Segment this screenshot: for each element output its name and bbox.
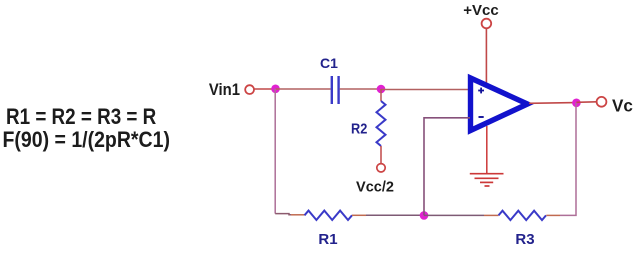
wire: Vin1 terminal to node A bbox=[254, 88, 276, 90]
wire: R3 left lead bbox=[484, 214, 499, 216]
wire: node A down the left side bbox=[274, 89, 276, 214]
wire: op-amp ground pin to ground symbol bbox=[486, 126, 488, 174]
wire: center node up to inverting input bbox=[424, 118, 470, 216]
wire: R1 left lead bbox=[291, 214, 305, 216]
center node junction (bottom feedback node) bbox=[420, 211, 429, 220]
wire: op-amp output to output node bbox=[529, 102, 576, 105]
wire: R3 to bottom right corner bbox=[560, 103, 576, 216]
wire: node A to C1 left plate bbox=[276, 88, 331, 90]
output node junction bbox=[572, 99, 581, 108]
node A junction (input node) bbox=[271, 85, 280, 94]
wire: output node to Vo terminal bbox=[576, 101, 596, 104]
svg-text:C1: C1 bbox=[320, 55, 338, 71]
wire: center node to R3 bbox=[424, 214, 484, 216]
wire: C1 right plate to node B bbox=[340, 88, 381, 90]
ground symbol bbox=[470, 174, 504, 186]
capacitor C1 bbox=[332, 76, 339, 104]
svg-text:+Vcc: +Vcc bbox=[463, 2, 498, 19]
resistor R1 bbox=[305, 211, 352, 220]
svg-text:F(90) = 1/(2pR*C1): F(90) = 1/(2pR*C1) bbox=[3, 128, 170, 152]
wire: R3 right lead bbox=[546, 214, 560, 216]
svg-text:Vin1: Vin1 bbox=[209, 81, 240, 99]
wire: R1 right lead bbox=[352, 214, 366, 216]
wire: R2 bottom lead to Vcc/2 terminal bbox=[380, 146, 382, 164]
op-amp + input marker bbox=[478, 88, 484, 94]
svg-text:R1 = R2 = R3 = R: R1 = R2 = R3 = R bbox=[6, 105, 156, 130]
wire: bottom left corner to R1 bbox=[275, 214, 291, 215]
terminal +Vcc (open circle) bbox=[482, 19, 492, 29]
svg-text:R2: R2 bbox=[351, 120, 368, 137]
op-amp - input marker bbox=[479, 116, 484, 118]
wire: R2 top lead bbox=[380, 89, 382, 101]
op-amp U1 triangle body bbox=[471, 78, 528, 131]
resistor R2 (vertical) bbox=[377, 89, 386, 164]
svg-text:R1: R1 bbox=[318, 231, 337, 248]
wire: +Vcc terminal to op-amp V+ pin bbox=[485, 28, 487, 87]
wire: R1 to center node bbox=[366, 214, 424, 216]
terminal Vcc/2 (open circle) bbox=[377, 164, 385, 172]
node B junction (after C1) bbox=[377, 85, 386, 94]
resistor R3 bbox=[499, 211, 547, 220]
R2 zigzag body bbox=[377, 101, 386, 146]
terminal Vc output (open circle) bbox=[597, 97, 607, 107]
wire: node B to op-amp non-inverting input bbox=[381, 89, 470, 91]
svg-text:Vc: Vc bbox=[612, 95, 633, 116]
svg-text:Vcc/2: Vcc/2 bbox=[356, 180, 394, 196]
terminal Vin1 (open circle) bbox=[245, 85, 254, 94]
svg-text:R3: R3 bbox=[515, 231, 534, 248]
